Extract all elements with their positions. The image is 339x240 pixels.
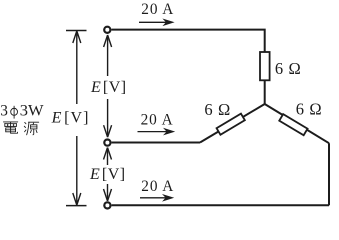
- svg-text:6 Ω: 6 Ω: [204, 100, 230, 119]
- long E arrow shaft: [76, 32, 78, 205]
- wire bottom horizontal: [112, 204, 329, 206]
- svg-text:E[V]: E[V]: [51, 110, 90, 127]
- wire right diagonal: [265, 104, 329, 143]
- svg-text:E[V]: E[V]: [90, 79, 127, 96]
- svg-text:20 A: 20 A: [141, 111, 174, 128]
- svg-text:6 Ω: 6 Ω: [275, 59, 301, 78]
- dimension bar top: [66, 30, 87, 32]
- resistor right 6ohm (diagonal): [279, 114, 307, 135]
- current arrow top: [139, 21, 171, 23]
- resistor left 6ohm (diagonal): [217, 114, 245, 135]
- phi symbol: [11, 106, 18, 119]
- svg-text:6 Ω: 6 Ω: [296, 100, 322, 119]
- label kanji dengen (power source): [3, 122, 38, 135]
- E arrow 1 head down: [104, 125, 112, 137]
- current arrow middle: [138, 131, 172, 133]
- wire top horizontal and down to resistor: [112, 30, 265, 53]
- node center of Y: [0, 0, 1, 1]
- svg-text:3: 3: [0, 103, 8, 120]
- resistor R top 6ohm (vertical): [260, 52, 270, 80]
- current arrow bottom: [140, 197, 171, 199]
- wire right vertical: [328, 143, 330, 205]
- kanji GEN: [24, 122, 38, 135]
- wire resistor to node: [264, 80, 266, 104]
- wire left diagonal: [200, 104, 265, 143]
- dimension bar bottom: [66, 205, 87, 207]
- long E arrow head down: [73, 193, 81, 205]
- E arrow 2 shaft (middle to bottom): [107, 148, 109, 201]
- svg-text:20 A: 20 A: [141, 178, 174, 195]
- kanji DEN: [3, 122, 17, 133]
- E arrow 1 shaft (top to middle): [107, 36, 109, 137]
- terminal middle: [104, 140, 110, 146]
- svg-text:E[V]: E[V]: [89, 166, 126, 183]
- long E arrow head up: [73, 31, 81, 43]
- svg-text:3W: 3W: [20, 103, 44, 120]
- wire middle horizontal: [112, 142, 200, 144]
- E arrow 1 head up: [104, 35, 112, 47]
- E arrow 2 head up: [104, 148, 112, 160]
- svg-text:20 A: 20 A: [141, 1, 174, 18]
- E arrow 2 head down: [104, 189, 112, 201]
- terminal top: [104, 27, 110, 33]
- terminal bottom: [104, 202, 110, 208]
